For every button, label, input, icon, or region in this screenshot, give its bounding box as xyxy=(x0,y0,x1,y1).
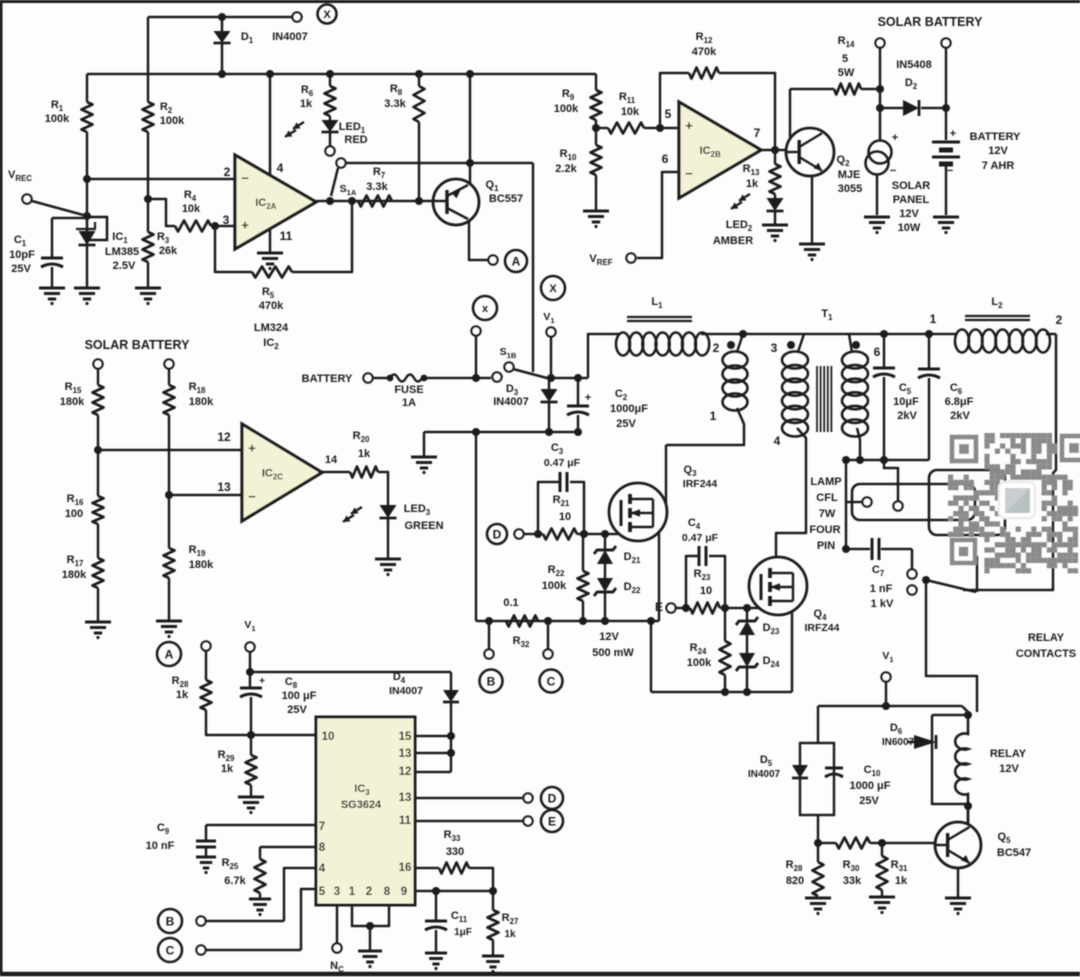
svg-text:+: + xyxy=(241,218,249,233)
svg-text:100 μF: 100 μF xyxy=(282,690,317,702)
svg-text:12V: 12V xyxy=(899,208,919,220)
svg-text:1k: 1k xyxy=(895,875,908,887)
svg-text:3: 3 xyxy=(771,341,778,355)
svg-text:+: + xyxy=(892,132,898,144)
svg-text:12V: 12V xyxy=(988,145,1008,157)
svg-text:2: 2 xyxy=(224,165,231,179)
svg-text:1k: 1k xyxy=(176,689,189,701)
svg-text:3.3k: 3.3k xyxy=(384,98,406,110)
svg-text:IRFZ44: IRFZ44 xyxy=(804,622,839,634)
svg-text:X: X xyxy=(549,283,557,295)
svg-text:D: D xyxy=(493,527,502,541)
svg-text:100: 100 xyxy=(65,508,83,520)
svg-text:2kV: 2kV xyxy=(950,410,970,422)
svg-text:PANEL: PANEL xyxy=(893,194,930,206)
svg-text:12V: 12V xyxy=(999,763,1019,775)
svg-text:−: − xyxy=(890,165,896,177)
svg-text:1 kV: 1 kV xyxy=(871,598,894,610)
svg-text:820: 820 xyxy=(786,875,804,887)
svg-text:LAMP: LAMP xyxy=(810,476,841,488)
svg-text:0.47 μF: 0.47 μF xyxy=(682,532,719,544)
svg-text:0.47 μF: 0.47 μF xyxy=(544,457,581,469)
svg-text:X: X xyxy=(323,9,331,21)
svg-text:FUSE: FUSE xyxy=(394,384,423,396)
svg-text:7: 7 xyxy=(319,821,325,833)
svg-text:IN4007: IN4007 xyxy=(748,769,781,780)
svg-text:IN4007: IN4007 xyxy=(272,31,307,43)
svg-text:100k: 100k xyxy=(160,115,185,127)
svg-text:180k: 180k xyxy=(189,559,214,571)
svg-text:26k: 26k xyxy=(159,245,178,257)
svg-text:BC557: BC557 xyxy=(489,193,523,205)
svg-text:10k: 10k xyxy=(621,106,640,118)
svg-text:16: 16 xyxy=(399,862,412,874)
svg-text:10: 10 xyxy=(700,585,712,597)
svg-text:−: − xyxy=(947,165,953,177)
svg-text:6.7k: 6.7k xyxy=(224,875,246,887)
svg-text:7: 7 xyxy=(754,126,761,140)
svg-text:FOUR: FOUR xyxy=(809,524,840,536)
svg-text:LM324: LM324 xyxy=(254,322,289,334)
svg-text:500 mW: 500 mW xyxy=(592,647,634,659)
svg-text:4: 4 xyxy=(319,863,326,875)
svg-text:9: 9 xyxy=(401,886,407,898)
svg-text:E: E xyxy=(548,814,556,828)
svg-text:180k: 180k xyxy=(189,396,214,408)
svg-text:SG3624: SG3624 xyxy=(341,799,382,811)
svg-text:3: 3 xyxy=(334,886,340,898)
svg-text:x: x xyxy=(482,303,489,315)
svg-text:330: 330 xyxy=(446,846,464,858)
svg-text:15: 15 xyxy=(399,731,412,743)
svg-text:1000 μF: 1000 μF xyxy=(850,780,891,792)
svg-text:25V: 25V xyxy=(616,418,636,430)
svg-text:E: E xyxy=(655,600,663,614)
svg-text:2: 2 xyxy=(366,886,372,898)
svg-text:3: 3 xyxy=(223,213,230,227)
svg-text:BATTERY: BATTERY xyxy=(970,131,1021,143)
svg-text:2.2k: 2.2k xyxy=(555,163,577,175)
svg-text:C: C xyxy=(547,674,556,688)
svg-text:+: + xyxy=(248,440,256,455)
svg-text:−: − xyxy=(241,171,249,186)
svg-text:BC547: BC547 xyxy=(997,847,1031,859)
svg-text:1k: 1k xyxy=(221,763,234,775)
svg-text:25V: 25V xyxy=(859,795,879,807)
svg-text:RELAY: RELAY xyxy=(1028,632,1065,644)
svg-text:2.5V: 2.5V xyxy=(113,260,136,272)
svg-text:A: A xyxy=(165,647,174,661)
svg-text:14: 14 xyxy=(325,454,338,466)
svg-text:10W: 10W xyxy=(898,222,921,234)
svg-text:10k: 10k xyxy=(182,203,201,215)
svg-text:7W: 7W xyxy=(819,508,836,520)
svg-text:2kV: 2kV xyxy=(897,410,917,422)
svg-text:+: + xyxy=(259,676,265,687)
svg-text:B: B xyxy=(166,914,175,928)
svg-text:1μF: 1μF xyxy=(454,927,472,938)
svg-text:11: 11 xyxy=(399,815,412,827)
svg-text:3055: 3055 xyxy=(838,183,862,195)
svg-text:4: 4 xyxy=(774,434,781,448)
svg-text:2: 2 xyxy=(713,341,720,355)
svg-text:AMBER: AMBER xyxy=(713,235,753,247)
svg-text:470k: 470k xyxy=(259,300,284,312)
svg-text:5: 5 xyxy=(319,886,326,898)
svg-text:D: D xyxy=(548,791,557,805)
svg-text:8: 8 xyxy=(384,886,391,898)
svg-text:1A: 1A xyxy=(402,397,416,409)
svg-text:5: 5 xyxy=(842,53,848,65)
svg-text:10: 10 xyxy=(322,731,335,743)
svg-text:B: B xyxy=(487,674,496,688)
svg-text:470k: 470k xyxy=(692,46,717,58)
svg-text:5W: 5W xyxy=(838,67,855,79)
svg-text:12: 12 xyxy=(217,430,231,444)
svg-text:1000μF: 1000μF xyxy=(610,403,648,415)
svg-text:CONTACTS: CONTACTS xyxy=(1016,648,1076,660)
svg-text:RELAY: RELAY xyxy=(990,748,1027,760)
svg-text:RED: RED xyxy=(344,134,367,146)
svg-text:1: 1 xyxy=(349,886,356,898)
svg-text:3.3k: 3.3k xyxy=(366,181,388,193)
svg-text:100k: 100k xyxy=(554,103,579,115)
svg-text:7 AHR: 7 AHR xyxy=(982,160,1015,172)
svg-text:BATTERY: BATTERY xyxy=(302,373,353,385)
svg-text:8: 8 xyxy=(319,842,326,854)
svg-text:IN5408: IN5408 xyxy=(896,59,931,71)
svg-text:−: − xyxy=(685,166,693,181)
svg-text:IRF244: IRF244 xyxy=(683,478,718,490)
svg-text:180k: 180k xyxy=(62,569,87,581)
svg-text:13: 13 xyxy=(217,480,231,494)
svg-text:12: 12 xyxy=(399,766,412,778)
svg-text:6: 6 xyxy=(662,152,669,166)
svg-text:LM385: LM385 xyxy=(105,246,139,258)
svg-text:+: + xyxy=(685,118,693,133)
svg-text:10pF: 10pF xyxy=(9,249,35,261)
svg-text:10: 10 xyxy=(559,511,571,523)
svg-text:SOLAR: SOLAR xyxy=(892,180,931,192)
svg-text:1k: 1k xyxy=(300,98,313,110)
svg-text:IN6007: IN6007 xyxy=(882,737,915,748)
svg-text:13: 13 xyxy=(399,748,412,760)
svg-text:6.8μF: 6.8μF xyxy=(945,396,974,408)
svg-text:PIN: PIN xyxy=(817,540,835,552)
svg-text:1k: 1k xyxy=(358,448,371,460)
svg-text:C: C xyxy=(166,943,175,957)
svg-text:100k: 100k xyxy=(687,657,712,669)
svg-text:1: 1 xyxy=(710,409,717,423)
svg-text:10 nF: 10 nF xyxy=(146,840,175,852)
svg-text:+: + xyxy=(585,392,591,404)
svg-text:12V: 12V xyxy=(599,631,619,643)
svg-text:6: 6 xyxy=(874,345,881,359)
svg-text:5: 5 xyxy=(665,107,672,121)
svg-text:10μF: 10μF xyxy=(893,396,919,408)
svg-text:100k: 100k xyxy=(542,580,567,592)
svg-text:SOLAR BATTERY: SOLAR BATTERY xyxy=(878,15,984,29)
svg-text:25V: 25V xyxy=(287,704,307,716)
svg-text:1 nF: 1 nF xyxy=(870,583,893,595)
svg-text:IN4007: IN4007 xyxy=(389,685,423,697)
svg-text:4: 4 xyxy=(277,161,284,175)
svg-text:−: − xyxy=(248,489,256,504)
svg-text:11: 11 xyxy=(280,229,293,243)
svg-text:A: A xyxy=(512,254,521,268)
svg-text:IN4007: IN4007 xyxy=(493,396,528,408)
svg-text:33k: 33k xyxy=(843,875,862,887)
svg-text:180k: 180k xyxy=(60,396,85,408)
svg-text:MJE: MJE xyxy=(838,169,861,181)
svg-text:0.1: 0.1 xyxy=(503,597,518,609)
svg-text:GREEN: GREEN xyxy=(404,520,443,532)
svg-text:+: + xyxy=(950,128,956,140)
svg-text:1k: 1k xyxy=(504,929,516,940)
svg-text:CFL: CFL xyxy=(816,492,838,504)
svg-text:25V: 25V xyxy=(11,263,31,275)
svg-text:SOLAR BATTERY: SOLAR BATTERY xyxy=(85,338,191,352)
svg-text:100k: 100k xyxy=(45,113,70,125)
svg-text:13: 13 xyxy=(399,792,412,804)
svg-text:1k: 1k xyxy=(746,178,759,190)
svg-text:2: 2 xyxy=(1056,313,1063,327)
svg-text:1: 1 xyxy=(930,312,937,326)
